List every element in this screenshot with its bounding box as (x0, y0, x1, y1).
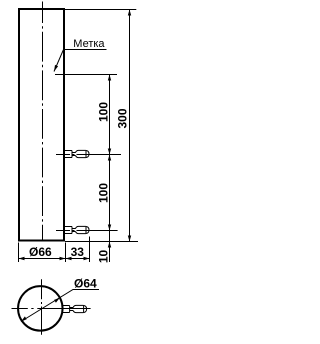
Ø64 leader line (21, 290, 99, 322)
arrow right at pin tip ext (84, 257, 90, 260)
dimension line 300 (129, 10, 131, 242)
top extension line (65, 9, 136, 11)
horizontal centerline of circle (12, 308, 91, 310)
arrows at pin1 (108, 149, 111, 155)
dimension line Ø66 / 33 (19, 258, 90, 260)
dimension line x=109 (100/100/10) (109, 75, 111, 263)
leader arrow upper-right on circle (54, 298, 60, 303)
svg-text:Ø64: Ø64 (74, 277, 97, 291)
svg-text:Ø66: Ø66 (29, 245, 52, 259)
pin 1 centerline / extension (56, 154, 121, 156)
vertical centerline of body (42, 2, 44, 242)
svg-text:100: 100 (97, 102, 111, 122)
arrow up at top (128, 10, 131, 16)
pin 1 (upper terminal) (65, 150, 90, 157)
arrows at 65.5 (60, 257, 66, 260)
extension line left for Ø66 (18, 243, 20, 263)
shared extension line at right edge (65, 243, 67, 263)
leader line for Метка (54, 50, 107, 72)
arrow left at 18.5 (19, 257, 25, 260)
mark line and its extension (55, 74, 117, 76)
arrow up below bottom line (108, 242, 111, 248)
svg-text:100: 100 (97, 183, 111, 203)
circle (cylinder top view) (18, 286, 63, 331)
body rectangle (cylinder side view) (19, 9, 64, 241)
arrow down at pin2 (108, 225, 111, 231)
extension line at pin tip (89, 237, 91, 263)
leader arrow (54, 65, 58, 72)
pin 2 centerline / extension (56, 230, 118, 232)
svg-text:Метка: Метка (73, 38, 105, 50)
svg-text:300: 300 (116, 108, 130, 128)
arrow up at mark (108, 75, 111, 81)
vertical centerline of circle (41, 279, 43, 334)
leader arrow lower-left (21, 316, 27, 321)
bottom extension line (65, 241, 138, 243)
svg-text:10: 10 (97, 250, 111, 264)
arrow down at bottom (128, 236, 131, 242)
svg-text:33: 33 (71, 245, 85, 259)
pin 3 (terminal in top view) (62, 305, 87, 312)
pin 2 (lower terminal) (65, 226, 90, 233)
